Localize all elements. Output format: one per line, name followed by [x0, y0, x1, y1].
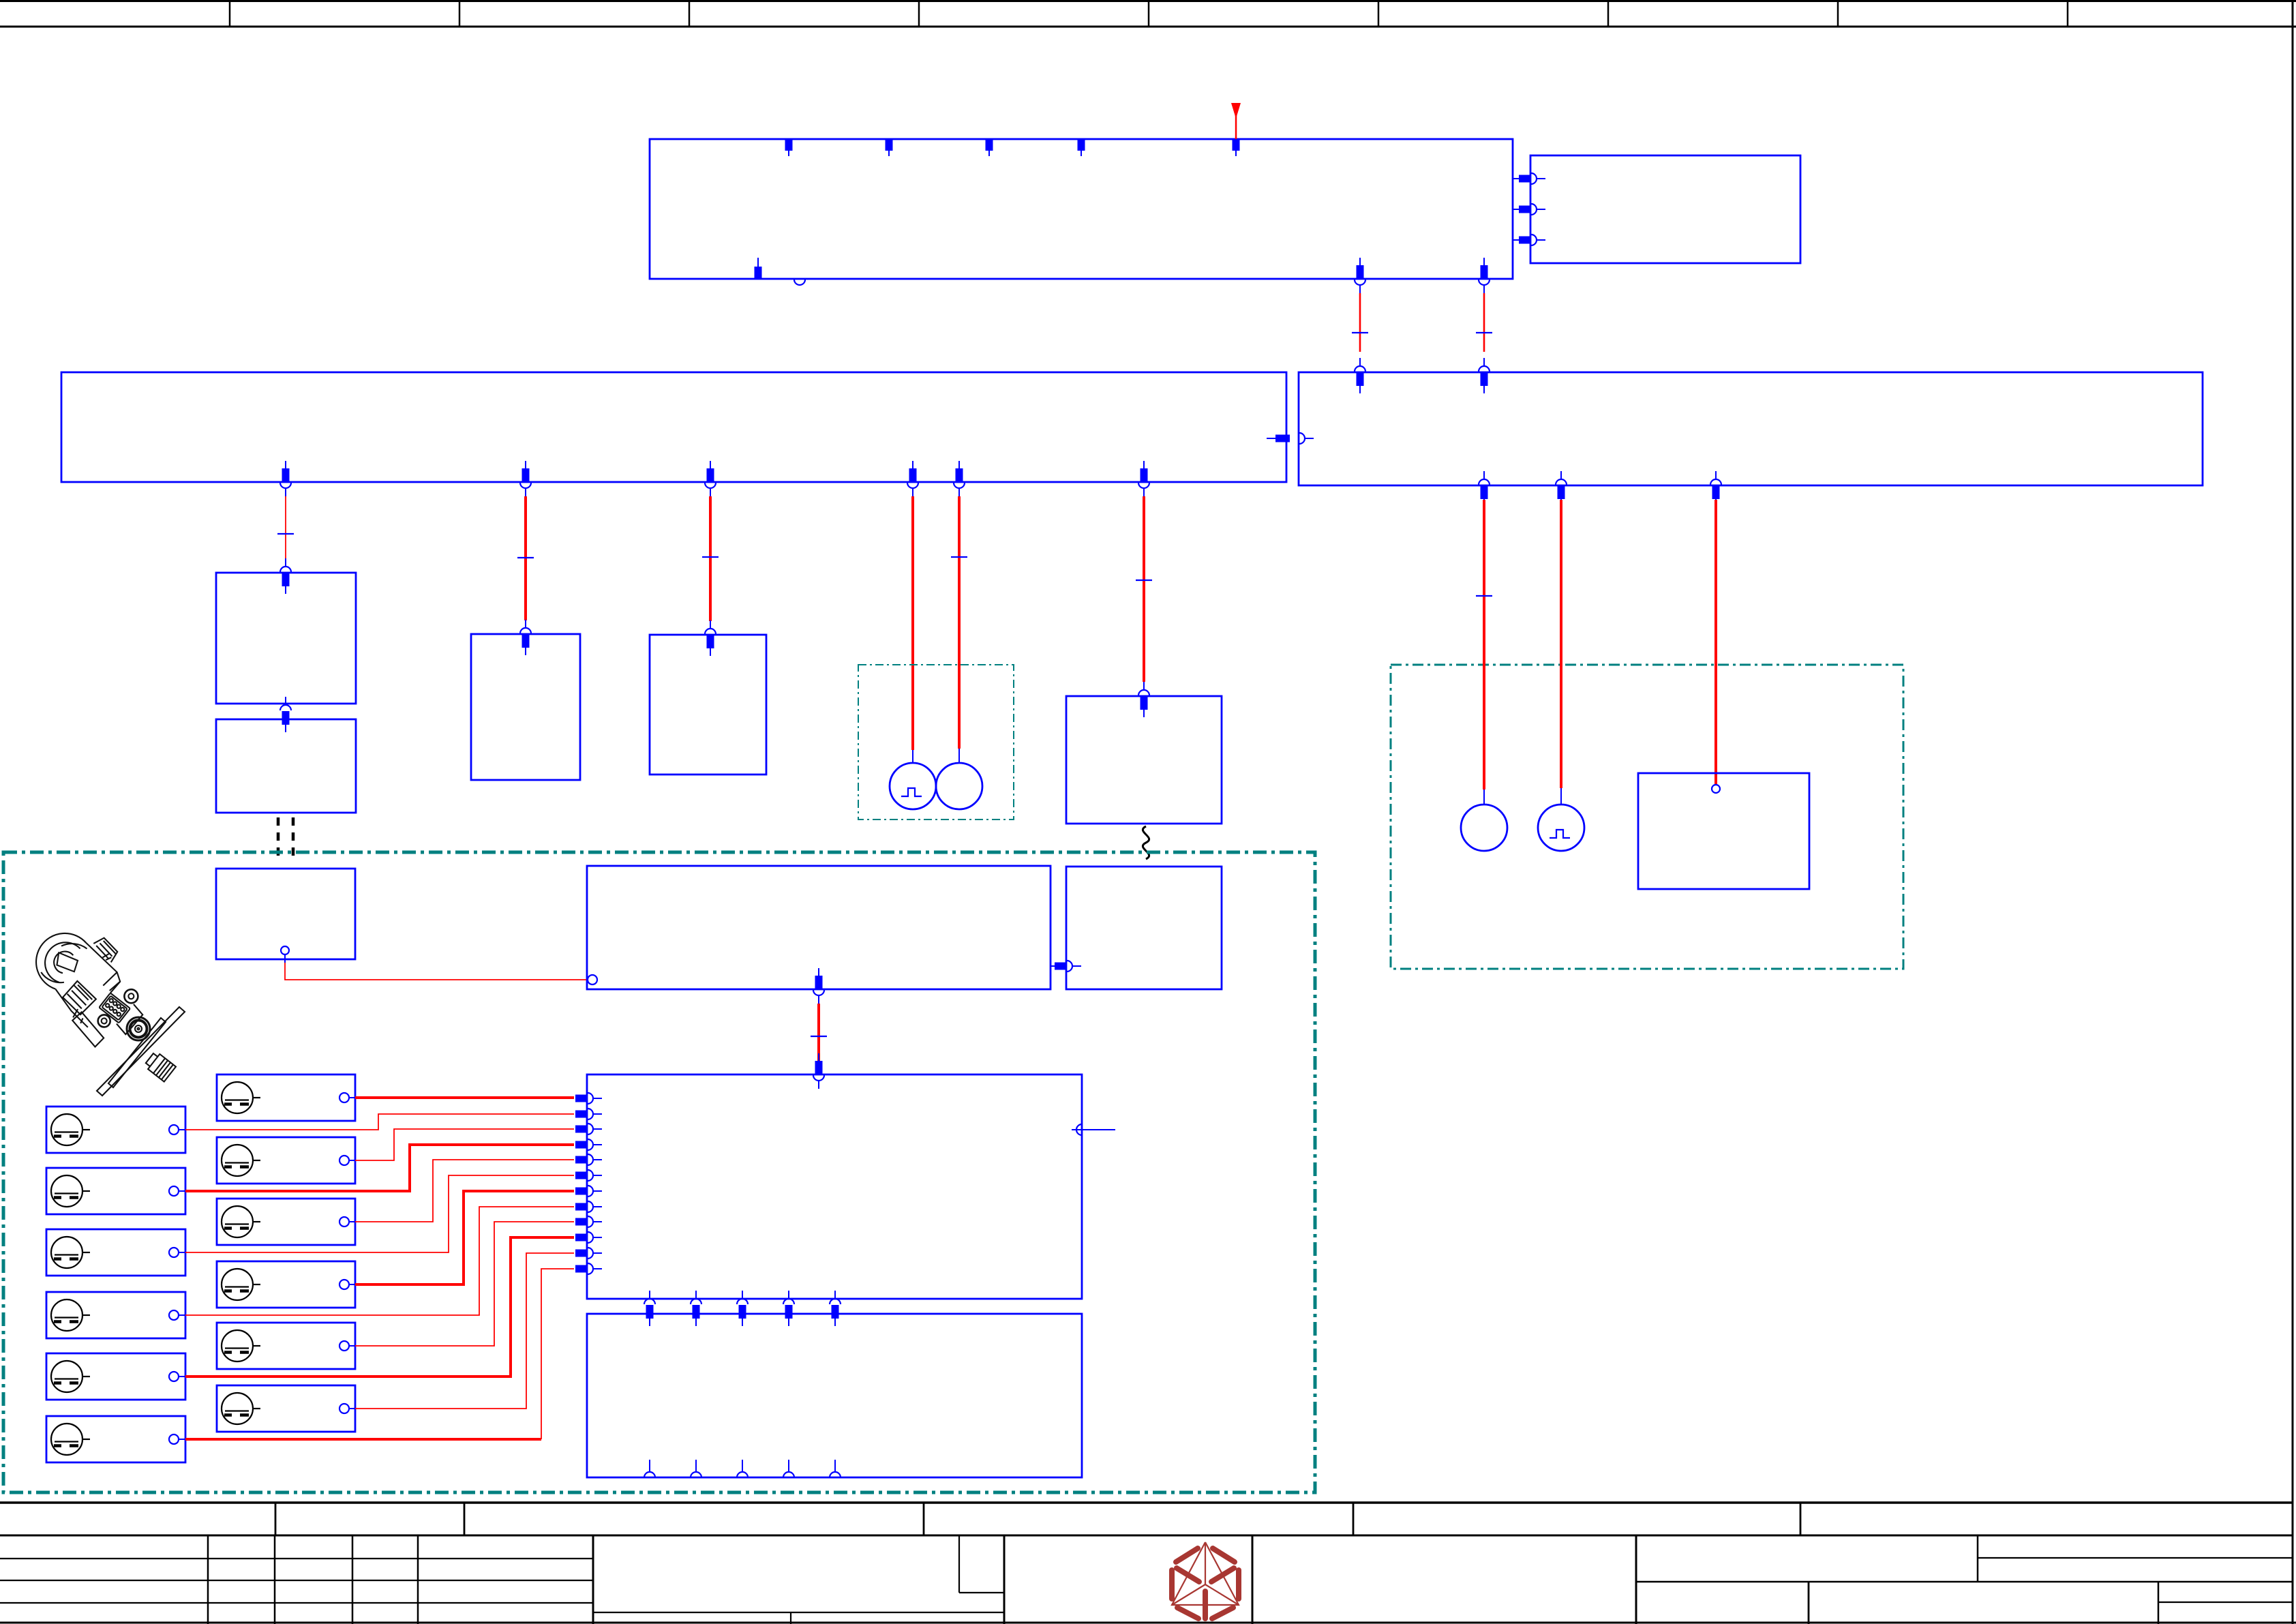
sensor B2 — [46, 1168, 185, 1214]
wire b4 — [911, 496, 914, 750]
wire C4 to A5:7 — [355, 1191, 574, 1284]
port — [127, 1017, 150, 1040]
block U3 — [216, 869, 355, 959]
wire b5 — [958, 496, 961, 749]
socket A6 bottom e4 — [783, 1460, 794, 1477]
motor M1 (pulse sensor) — [890, 763, 936, 809]
pin X1 on K1 top — [785, 139, 793, 156]
sheet top zone band — [0, 0, 2296, 27]
socket A6 bottom e5 — [830, 1460, 841, 1477]
block A5 — [587, 1074, 1082, 1299]
pin A5:3 — [575, 1124, 602, 1134]
pin on K1 bottom at node a1 — [1355, 258, 1365, 293]
boundary of right sensor group — [1391, 665, 1903, 969]
mounting blades — [97, 1007, 185, 1096]
boundary of actuator group (large) — [3, 852, 1315, 1492]
block A1 left bus unit — [61, 372, 1286, 482]
pin on K1 bottom at node a2 — [1479, 258, 1490, 293]
boundary of sensor group (small) — [858, 665, 1014, 819]
block A6 — [587, 1314, 1082, 1477]
pin K2:3 — [1519, 235, 1545, 245]
block A3 controller — [587, 866, 1051, 989]
pin A5:7 — [575, 1186, 602, 1197]
node circle on A3 left edge — [588, 975, 597, 984]
wire C3 to A5:5 — [355, 1160, 574, 1222]
wire b2 — [524, 496, 527, 620]
pin U1 top — [280, 558, 291, 594]
sensor C3 — [217, 1199, 355, 1245]
wire c1 blue lead — [1483, 790, 1485, 805]
flexible link symbol — [1143, 826, 1149, 859]
block U5 — [650, 635, 766, 775]
wire B1 to A5:2 — [185, 1114, 574, 1130]
wire b5 blue lead — [958, 749, 960, 764]
sensor B3 — [46, 1229, 185, 1276]
tick on wire a2 — [1476, 332, 1492, 333]
tick on wire b5 — [951, 556, 967, 558]
block U4 — [471, 634, 580, 780]
connector A5 to A6 pin d2 — [691, 1291, 701, 1326]
pin K2:2 — [1519, 204, 1545, 215]
block A4 — [1066, 867, 1222, 989]
socket A6 bottom e3 — [737, 1460, 748, 1477]
connector A5 to A6 pin d1 — [644, 1291, 655, 1326]
node circle on U3 bottom — [281, 946, 289, 954]
pulse symbol in M1 — [901, 788, 922, 796]
motor M2 — [936, 763, 982, 809]
sensor C1 — [217, 1074, 355, 1121]
block U7 — [1638, 773, 1809, 889]
sensor B1 — [46, 1107, 185, 1153]
pin A3 bottom — [813, 968, 824, 1004]
wire B6 to A5:12 — [185, 1438, 541, 1441]
tick on wire b1 — [277, 533, 294, 535]
wire c2 — [1560, 500, 1562, 788]
wire C2 to A5:3 — [355, 1129, 574, 1160]
tick on wire b2 — [517, 557, 534, 558]
wire K1 to K2 pin2 — [1513, 209, 1519, 210]
pin A5:10 — [575, 1232, 602, 1243]
socket on K1 bottom (unconnected) — [794, 280, 805, 285]
wire B2 to A5:4 — [185, 1145, 574, 1191]
pin A2 top at node a2 — [1479, 358, 1490, 393]
connector A1 to A2 — [1267, 433, 1314, 444]
wire K1 to K2 pin3 — [1513, 239, 1519, 241]
pin A5:9 — [575, 1216, 602, 1227]
pin A1 bottom node b5 — [954, 461, 965, 496]
pin U5 top — [705, 620, 716, 656]
sensor B4 — [46, 1292, 185, 1338]
sheet right border — [2292, 0, 2294, 1624]
wire C5 to A5:9 — [355, 1222, 574, 1346]
pin A5:6 — [575, 1170, 602, 1181]
wire a1 (K1 to K3) — [1359, 293, 1361, 352]
motor M3 — [1461, 805, 1507, 851]
pin A1 bottom node b6 — [1138, 461, 1149, 496]
pin X2 on K1 top — [886, 139, 893, 156]
pin U4 top — [520, 620, 531, 655]
wire c1 — [1483, 500, 1485, 790]
wire b6 — [1143, 496, 1145, 682]
tick on wire b6 — [1136, 580, 1152, 581]
connector A5 to A6 pin d3 — [737, 1291, 748, 1326]
connector A5 to A6 pin d5 — [830, 1291, 841, 1326]
wire b4 blue lead — [912, 750, 913, 764]
sensor B5 — [46, 1353, 185, 1400]
node circle in U7 — [1712, 785, 1720, 793]
socket A6 bottom e2 — [691, 1460, 701, 1477]
pulse symbol in M4 — [1550, 830, 1570, 838]
block K1 top unit — [650, 139, 1513, 279]
wire B4 to A5:8 — [185, 1207, 574, 1315]
tail threaded boss — [144, 1051, 176, 1081]
sensor C6 — [217, 1385, 355, 1432]
socket on A5 right edge — [1072, 1129, 1115, 1130]
block U1 — [216, 573, 356, 704]
pin A2 bottom node c2 — [1556, 471, 1567, 507]
block A2 right bus unit — [1299, 372, 2203, 485]
tick on wire a1 — [1352, 332, 1368, 333]
pin U6 top — [1138, 682, 1149, 717]
pin X5 on K1 top (supply input) — [1233, 139, 1240, 156]
sheet bottom border — [0, 1622, 2296, 1624]
wire a2 (K1 to K3) — [1483, 293, 1485, 352]
tick on wire b3 — [702, 556, 719, 558]
mechanical link U2 to U3 (dashed) — [278, 817, 293, 858]
wire b3 — [709, 496, 712, 621]
wire c3 — [1715, 500, 1717, 784]
pin A1 bottom node b4 — [907, 461, 918, 496]
supply input arrow — [1231, 103, 1241, 139]
pin A5:11 — [575, 1248, 602, 1259]
pin A2 bottom node c3 — [1710, 471, 1721, 507]
connector A3 to A4 — [1051, 965, 1055, 967]
sensor C4 — [217, 1261, 355, 1308]
pin A1 bottom node b3 — [705, 461, 716, 496]
pin X3 on K1 top — [986, 139, 993, 156]
sensor B6 — [46, 1416, 185, 1462]
actuator pictorial drawing — [12, 910, 185, 1096]
wire A3 to A5 — [817, 1004, 820, 1061]
tick on wire A3-A5 — [811, 1036, 827, 1037]
wire C6 to A5:11 — [355, 1253, 574, 1409]
motor M4 (pulse) — [1538, 805, 1584, 851]
block U6 — [1066, 696, 1222, 824]
pin A1 bottom node b2 — [520, 461, 531, 496]
pin A5:8 — [575, 1201, 602, 1212]
pin A5:4 — [575, 1139, 602, 1150]
sensor C2 — [217, 1137, 355, 1184]
socket A6 bottom e1 — [644, 1460, 655, 1477]
wire K1 to K2 pin1 — [1513, 178, 1519, 179]
pin A5 top — [813, 1053, 824, 1089]
pin A5:1 — [575, 1093, 602, 1104]
pin A5:12 — [575, 1263, 602, 1274]
wire B3 to A5:6 — [185, 1175, 574, 1252]
pin A5:2 — [575, 1109, 602, 1119]
sensor C5 — [217, 1323, 355, 1369]
connector A5 to A6 pin d4 — [783, 1291, 794, 1326]
pin A2 bottom node c1 — [1479, 471, 1490, 507]
title block — [0, 1503, 2293, 1624]
pin K2:1 — [1519, 173, 1545, 184]
pin A2 top at node a1 — [1355, 358, 1365, 393]
wire c2 blue lead — [1560, 788, 1562, 805]
wire b1 — [285, 496, 286, 559]
company logo — [1172, 1542, 1239, 1619]
wire C1 to A5:1 — [355, 1096, 574, 1099]
pin A5:5 — [575, 1154, 602, 1165]
pin X4 on K1 top — [1078, 139, 1085, 156]
pin A1 bottom node b1 — [280, 461, 291, 496]
tick on wire c1 — [1476, 595, 1492, 597]
block U2 — [216, 719, 356, 813]
wire B5 to A5:10 — [185, 1237, 574, 1377]
wire U3 to A3 — [284, 954, 286, 963]
pin X6 on K1 bottom (unconnected plug) — [755, 258, 762, 279]
connector U1 to U2 — [280, 697, 291, 732]
block K2 right small unit — [1530, 155, 1800, 263]
